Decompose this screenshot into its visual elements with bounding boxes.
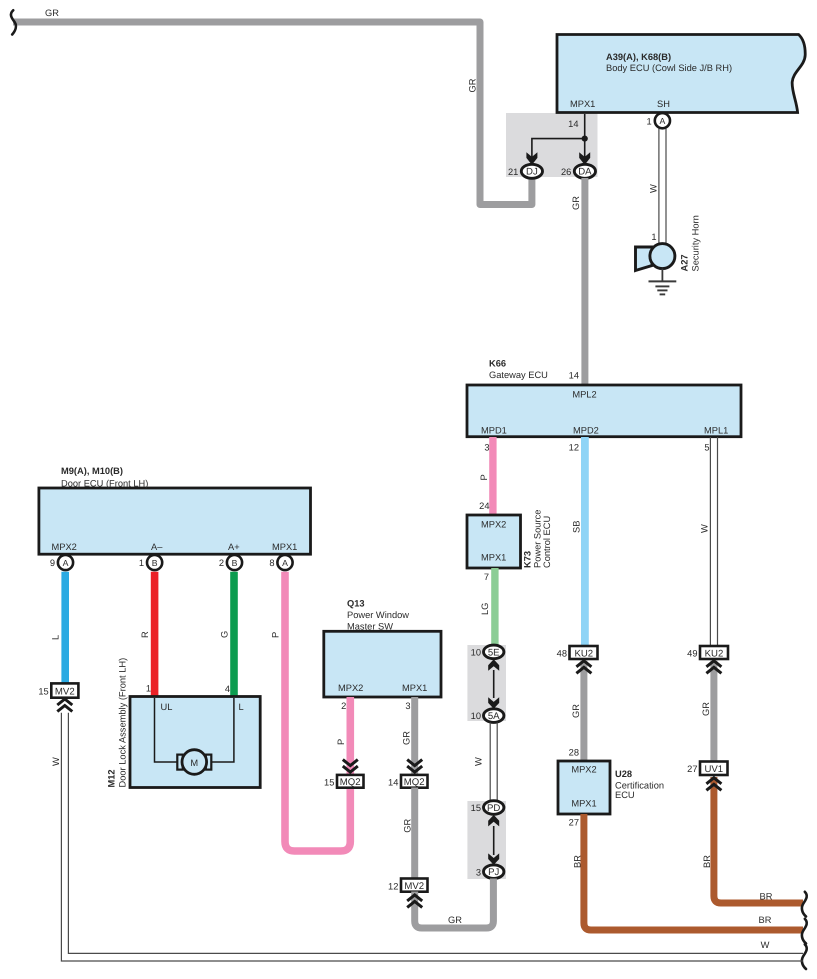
wire GR from MV2-12 to PJ [415,879,494,929]
wire GR from Q13 MPX1 to MQ2-14 [411,697,418,775]
junction connector PD [484,801,504,815]
svg-text:2: 2 [341,701,346,711]
svg-text:GR: GR [45,8,59,18]
off-page squiggle BR upper [802,892,807,917]
wire SB from K66 MPD2 to KU2-48 [581,437,589,646]
svg-text:MPX1: MPX1 [481,553,506,563]
svg-text:21: 21 [508,167,518,177]
svg-text:MV2: MV2 [404,881,424,892]
svg-text:PJ: PJ [488,867,499,878]
svg-text:27: 27 [687,764,697,774]
connector MQ2 pin 14 [401,775,428,788]
chevron below UV1 [706,778,721,791]
svg-text:28: 28 [569,748,579,758]
wire branch to DJ [532,139,585,157]
svg-text:10: 10 [471,711,481,721]
svg-text:10: 10 [471,648,481,658]
connector MQ2 pin 15 [337,775,364,788]
svg-text:Power Window: Power Window [347,610,409,620]
wire P from MPX1 down right and up to MQ2-15 [285,572,350,851]
svg-text:W: W [761,940,770,950]
wire W from 5A to PD [489,723,491,802]
svg-text:5E: 5E [488,647,500,658]
wire GR from off-page to junction DJ [13,22,532,205]
motor right brush [206,755,212,770]
ECU U-A39/K68 Body ECU box [557,35,805,113]
svg-text:W: W [51,757,61,766]
svg-text:W: W [649,184,659,193]
svg-text:GR: GR [571,704,581,718]
svg-text:MPX2: MPX2 [338,683,363,693]
arrow into DA [579,152,590,165]
off-page squiggle BR lower [802,919,807,944]
ECU K66 Gateway box [467,385,741,437]
wire R from A- to door lock pin 1 [151,572,159,697]
security horn A27 body [650,244,675,269]
pin circle B 1 [147,555,162,570]
svg-text:Certification: Certification [615,780,664,790]
svg-text:GR: GR [402,731,412,745]
pin circle B 2 [227,555,242,570]
svg-text:15: 15 [38,687,48,697]
svg-text:27: 27 [569,818,579,828]
svg-text:SB: SB [572,521,582,533]
svg-text:1: 1 [146,684,151,694]
svg-text:K66: K66 [489,358,506,368]
svg-text:4: 4 [225,684,230,694]
arrow down toward 5A [488,697,499,709]
connector KU2 pin 49 [700,646,728,659]
connector KU2 pin 48 [570,646,598,659]
svg-text:GR: GR [571,196,581,210]
junction connector 5E [484,645,504,659]
svg-text:P: P [270,632,280,638]
junction connector PJ [484,865,504,879]
svg-text:Gateway ECU: Gateway ECU [489,370,548,380]
svg-text:A–: A– [151,542,163,552]
svg-text:Power Source: Power Source [533,510,543,568]
svg-text:Door ECU (Front LH): Door ECU (Front LH) [61,478,148,488]
svg-text:49: 49 [687,649,697,659]
gray shade junction box DJ/DA [506,113,598,177]
svg-text:MPX2: MPX2 [52,542,77,552]
svg-text:8: 8 [269,558,274,568]
wire W from SH to security horn [658,129,660,243]
off-page squiggle top left [11,10,16,34]
svg-text:W: W [700,524,710,533]
svg-text:UL: UL [161,702,173,712]
svg-text:MPL1: MPL1 [704,426,728,436]
svg-text:BR: BR [702,855,712,868]
svg-text:KU2: KU2 [574,648,593,659]
svg-text:P: P [479,474,489,480]
chevron below KU2-49 [706,661,721,674]
svg-text:3: 3 [484,443,489,453]
svg-text:GR: GR [448,915,462,925]
ECU U28 Certification box [558,761,610,814]
wire BR from UV1 to right edge [714,777,803,903]
svg-text:B: B [232,558,238,568]
svg-text:KU2: KU2 [705,648,724,659]
svg-text:14: 14 [569,371,579,381]
wire P from K66 MPD1 to K73 MPX2 [489,437,496,515]
svg-text:3: 3 [476,868,481,878]
svg-text:UV1: UV1 [704,764,723,775]
svg-text:24: 24 [479,501,489,511]
svg-text:MPD1: MPD1 [481,426,507,436]
wire P from Q13 MPX2 to MQ2-15 [346,697,354,775]
junction connector 5A [484,709,504,723]
svg-text:14: 14 [568,119,578,129]
svg-text:MPX2: MPX2 [481,520,506,530]
wire W from K66 MPL1 to KU2-49 [709,437,711,646]
arrow into DJ [526,152,537,165]
svg-text:U28: U28 [615,769,632,779]
pin circle A 8 [277,555,292,570]
svg-text:12: 12 [388,882,398,892]
svg-text:GR: GR [701,702,711,716]
svg-text:L: L [239,702,244,712]
svg-text:MPX1: MPX1 [571,799,596,809]
svg-text:MV2: MV2 [55,687,75,698]
svg-text:GR: GR [468,78,478,92]
svg-text:MPX1: MPX1 [570,99,595,109]
gray shade box PD/PJ [467,801,506,879]
svg-text:G: G [219,631,229,638]
svg-text:MPL2: MPL2 [572,389,596,399]
svg-text:1: 1 [139,558,144,568]
svg-text:SH: SH [657,99,670,109]
svg-text:BR: BR [759,915,772,925]
svg-text:LG: LG [480,603,490,615]
svg-text:R: R [140,631,150,638]
wire LG from K73 MPX1 to 5E [491,568,498,646]
wire GR from KU2-49 to UV1 [710,660,717,762]
door lock assembly M12 box [130,697,260,788]
svg-text:K73: K73 [523,551,533,568]
wire GR from MQ2-14 to MV2-12 [411,788,418,880]
connector UV1 pin 27 [700,762,728,776]
svg-text:ECU: ECU [615,790,635,800]
ECU M9/M10 Door ECU box [39,488,311,554]
svg-text:MPX1: MPX1 [402,683,427,693]
svg-text:Security Horn: Security Horn [691,215,701,271]
svg-text:W: W [474,757,484,766]
svg-text:3: 3 [405,701,410,711]
svg-text:Door Lock Assembly (Front LH): Door Lock Assembly (Front LH) [118,658,128,788]
svg-text:26: 26 [561,167,571,177]
motor M [182,750,207,775]
pin 14 stub wire from MPX1 [584,114,586,157]
svg-text:DJ: DJ [526,167,538,178]
link line 5E to 5A [493,670,495,698]
svg-text:9: 9 [50,558,55,568]
wire L from MPX2 to MV2-15 [61,572,69,684]
internal wire UL to motor [155,698,180,762]
connector MV2 pin 12 [401,879,428,892]
svg-text:M12: M12 [107,769,117,787]
ECU K73 Power Source Control box [467,515,521,568]
motor left brush [177,755,183,770]
svg-text:A: A [660,116,666,126]
chevron above MQ2-15 [343,760,358,773]
junction connector DJ [521,164,542,178]
svg-text:Body ECU (Cowl Side J/B RH): Body ECU (Cowl Side J/B RH) [606,63,732,73]
link line PD to PJ [493,826,495,855]
svg-text:A: A [282,558,288,568]
svg-text:L: L [50,635,60,640]
security horn A27 trumpet [636,247,653,271]
pin circle A 9 [58,555,73,570]
svg-text:5: 5 [704,443,709,453]
svg-text:MQ2: MQ2 [404,777,425,788]
junction node dot [582,136,588,142]
svg-text:MPX1: MPX1 [272,542,297,552]
arrow up toward 5E [488,659,499,671]
svg-text:15: 15 [324,778,334,788]
svg-text:PD: PD [487,803,500,814]
wire G from A+ to door lock pin 4 [230,572,238,697]
svg-text:A27: A27 [680,254,690,271]
svg-text:P: P [336,739,346,745]
svg-text:15: 15 [471,803,481,813]
gray shade box 5E/5A [467,645,506,721]
svg-text:1: 1 [651,232,656,242]
chevron below KU2-48 [576,661,591,674]
svg-text:A+: A+ [228,542,240,552]
chevron below MV2-15 [57,699,72,712]
svg-text:12: 12 [569,443,579,453]
arrow down toward PJ [488,853,499,865]
wire BR from U28 MPX1 to right edge [584,814,803,930]
svg-text:BR: BR [760,892,773,902]
svg-text:A: A [63,558,69,568]
switch Q13 Power Window Master SW box [324,631,441,697]
svg-text:1: 1 [647,116,652,126]
svg-text:M9(A), M10(B): M9(A), M10(B) [61,466,123,476]
wire W from MV2-15 to bottom right edge [61,713,803,961]
svg-text:GR: GR [402,818,412,832]
chevron above MQ2-14 [407,760,422,773]
svg-text:48: 48 [557,649,567,659]
svg-text:Q13: Q13 [347,598,365,608]
off-page squiggle W bottom [802,944,807,969]
ground at horn [649,269,677,295]
svg-text:2: 2 [219,558,224,568]
svg-text:Master SW: Master SW [347,622,393,632]
chevron below MV2-12 [407,895,422,908]
svg-text:MPD2: MPD2 [573,426,599,436]
junction connector DA [574,164,595,178]
connector MV2 pin 15 [51,683,78,697]
wire GR from KU2-48 to U28 MPX2 [580,660,587,761]
internal wire L to motor [209,698,234,762]
svg-text:Control ECU: Control ECU [542,516,552,568]
svg-text:MQ2: MQ2 [340,777,361,788]
wire GR from DA down to K66 MPL2 [581,178,588,385]
pin circle A on SH [655,113,670,128]
svg-text:5A: 5A [488,711,500,722]
svg-text:A39(A), K68(B): A39(A), K68(B) [606,52,671,62]
svg-text:BR: BR [573,855,583,868]
svg-text:B: B [152,558,158,568]
svg-text:14: 14 [388,778,398,788]
arrow up toward PD [488,815,499,827]
svg-text:7: 7 [484,572,489,582]
svg-text:DA: DA [578,167,592,178]
svg-text:MPX2: MPX2 [571,765,596,775]
svg-text:M: M [190,758,198,768]
